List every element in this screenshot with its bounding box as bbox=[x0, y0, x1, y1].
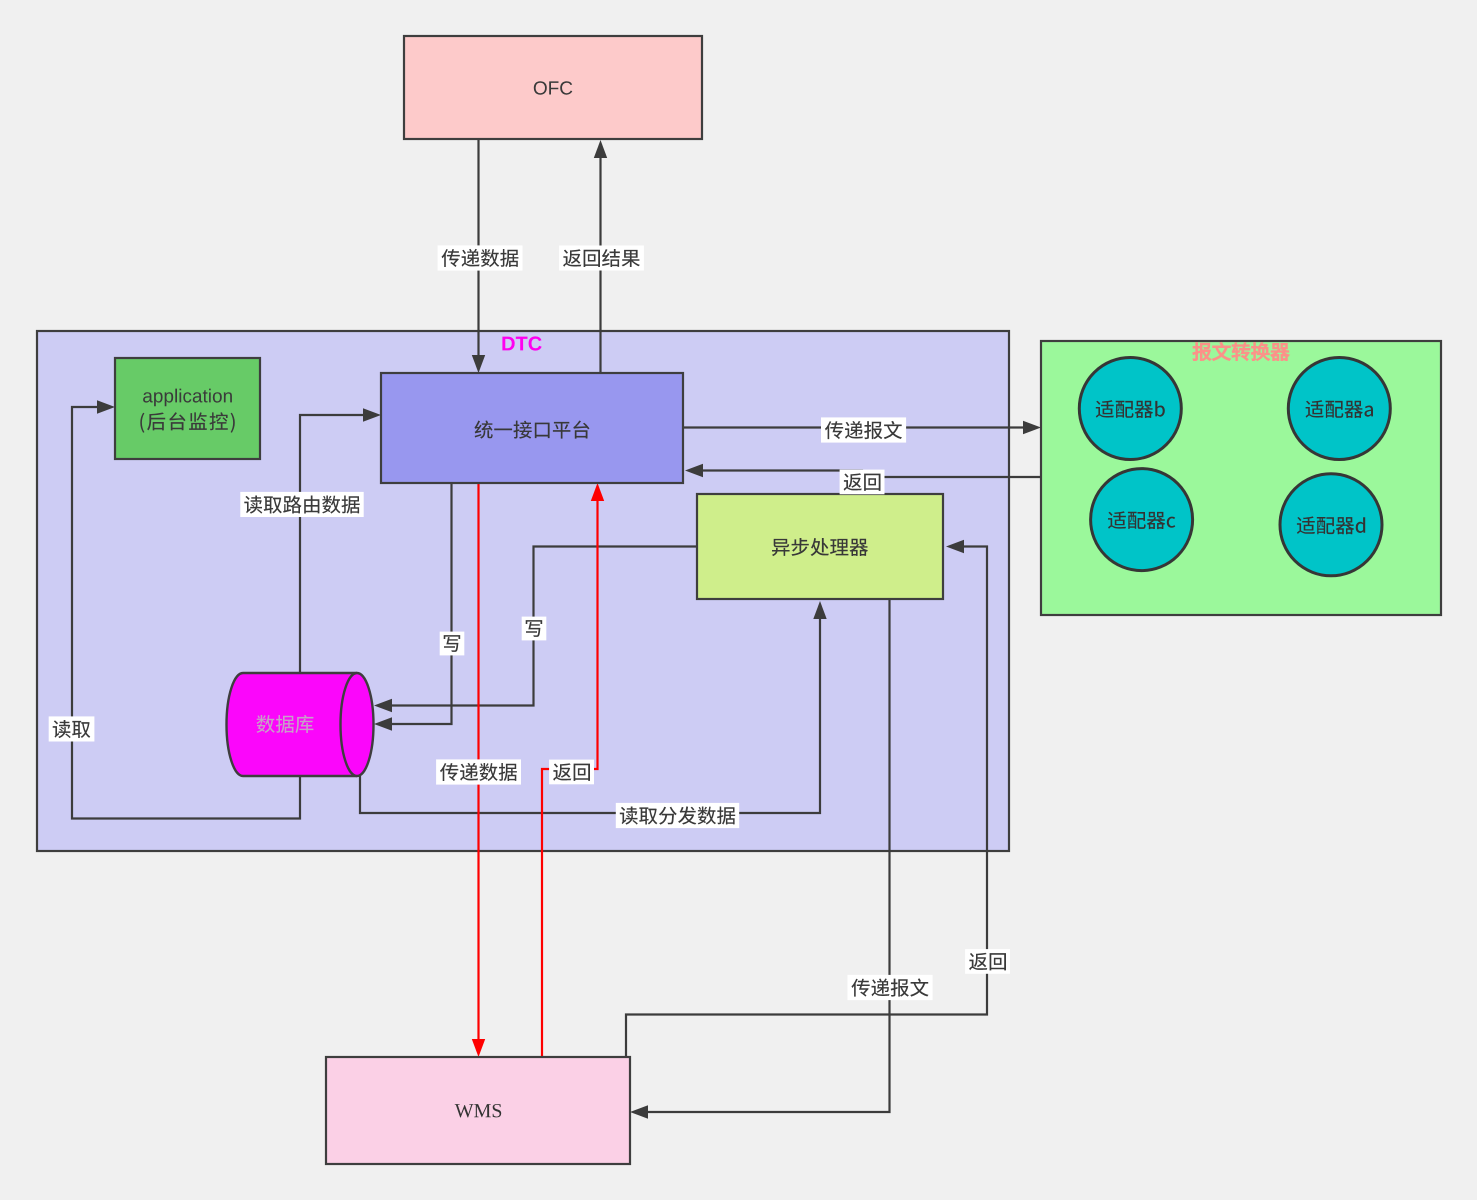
edge label 返回结果 (up to OFC) bbox=[559, 246, 644, 271]
edge 数据库 to application (读取) bbox=[72, 400, 300, 818]
container DTC bbox=[37, 331, 1009, 851]
edge label 返回 (from 报文转换器) bbox=[840, 470, 885, 495]
edge label 返回 (red from WMS) bbox=[549, 760, 594, 785]
edge label 读取路由数据 bbox=[240, 492, 363, 517]
label 报文转换器 bbox=[1193, 342, 1289, 360]
edge label 读取分发数据 bbox=[616, 803, 739, 828]
edge 数据库 to 异步处理器 (读取分发数据) bbox=[360, 601, 827, 813]
edge label 写 (from 统一接口平台) bbox=[440, 632, 465, 656]
label 数据库 bbox=[257, 715, 314, 733]
edge 统一接口平台 to 报文转换器 (传递报文) bbox=[683, 421, 1041, 434]
edge label 传递报文 (to WMS) bbox=[848, 975, 933, 1000]
label 适配器c bbox=[1108, 511, 1175, 529]
edge 异步处理器 to 数据库 (写) bbox=[374, 547, 697, 713]
circle adapter c (适配器c) bbox=[1091, 469, 1193, 571]
edge 统一接口平台 to WMS red (传递数据) bbox=[472, 483, 485, 1057]
edge label 传递数据 (red to WMS) bbox=[436, 759, 521, 784]
edge label 返回 (WMS to 异步处理器) bbox=[965, 949, 1010, 974]
box application (后台监控) bbox=[115, 358, 260, 459]
edge 异步处理器 to WMS (传递报文) bbox=[630, 599, 890, 1119]
label 统一接口平台 bbox=[475, 421, 590, 439]
box WMS bbox=[326, 1057, 630, 1164]
edge WMS to 异步处理器 (返回) bbox=[626, 540, 987, 1057]
label application line 1 bbox=[143, 389, 232, 407]
edge WMS to 统一接口平台 red (返回) bbox=[542, 483, 604, 1057]
edge OFC to 统一接口平台 (传递数据) bbox=[472, 139, 485, 373]
label DTC bbox=[502, 336, 541, 350]
circle adapter a (适配器a) bbox=[1288, 358, 1390, 460]
edge label 写 (from 异步处理器) bbox=[522, 617, 547, 641]
box 异步处理器 bbox=[697, 494, 943, 599]
label OFC bbox=[534, 81, 573, 95]
label WMS bbox=[455, 1104, 502, 1118]
edge label 传递数据 (OFC down) bbox=[438, 245, 523, 270]
edge 统一接口平台 to 数据库 (写) bbox=[374, 483, 452, 731]
circle adapter b (适配器b) bbox=[1079, 358, 1181, 460]
edge label 读取 bbox=[49, 716, 95, 741]
label 适配器a bbox=[1306, 400, 1373, 418]
box 统一接口平台 bbox=[381, 373, 683, 483]
label 适配器d bbox=[1297, 516, 1365, 534]
edge 数据库 to 统一接口平台 (读取路由数据) bbox=[300, 408, 381, 673]
label 适配器b bbox=[1096, 400, 1165, 418]
box OFC bbox=[404, 36, 702, 139]
label 异步处理器 bbox=[772, 538, 868, 556]
edge 报文转换器 to 统一接口平台 (返回) bbox=[685, 464, 1041, 477]
circle adapter d (适配器d) bbox=[1280, 474, 1382, 576]
edge 统一接口平台 to OFC (返回结果) bbox=[594, 140, 607, 373]
label (后台监控) bbox=[140, 412, 235, 432]
container baowen-zhuanhuanqi (报文转换器 group) bbox=[1041, 341, 1441, 615]
cylinder 数据库 bbox=[227, 673, 374, 776]
edge label 传递报文 (to 报文转换器) bbox=[821, 417, 906, 442]
